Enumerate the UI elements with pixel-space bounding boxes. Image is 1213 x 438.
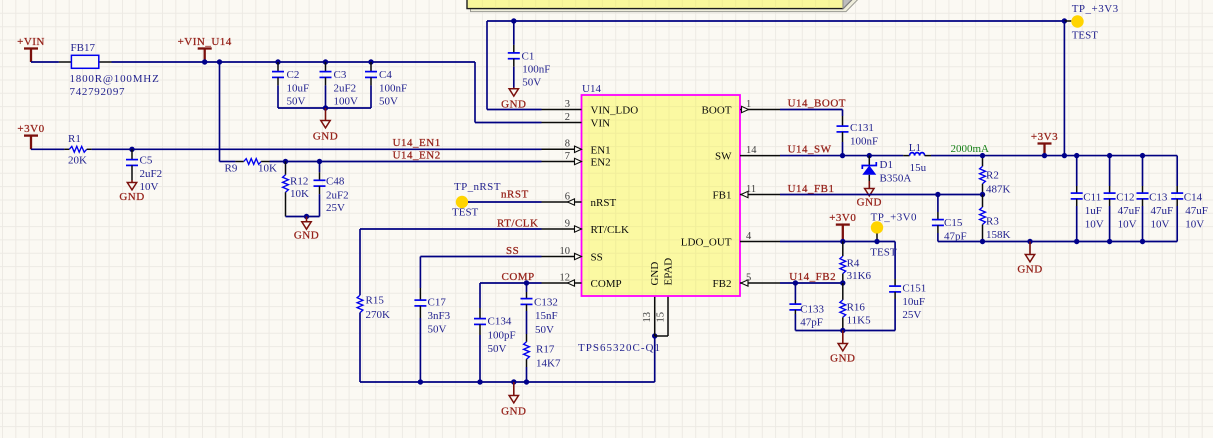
svg-text:C12: C12 xyxy=(1116,192,1134,204)
svg-text:100nF: 100nF xyxy=(379,83,407,95)
wire VIN rail xyxy=(112,61,476,63)
junction D1 xyxy=(867,153,872,158)
wire C151 bottom xyxy=(894,299,896,331)
svg-text:EN2: EN2 xyxy=(591,157,611,169)
pin 2 VIN stub xyxy=(542,122,582,124)
capacitor C14 xyxy=(1171,186,1183,206)
grid over note (decorative) xyxy=(469,0,842,8)
resistor R4 xyxy=(840,242,846,284)
svg-text:10V: 10V xyxy=(1151,219,1170,231)
svg-text:GND: GND xyxy=(501,99,526,111)
svg-text:1uF: 1uF xyxy=(1085,205,1102,217)
pin 5 FB2 stub xyxy=(740,280,780,286)
junction C134 bottom xyxy=(477,379,482,384)
pin 14 SW stub xyxy=(740,155,780,157)
wire +VIN to FB17 xyxy=(31,61,59,63)
svg-text:C151: C151 xyxy=(902,283,926,295)
power port +3V0 left xyxy=(17,123,44,149)
test point TP_+3V0 xyxy=(871,221,883,233)
svg-text:15: 15 xyxy=(655,312,666,323)
junction C1 xyxy=(511,18,516,23)
svg-text:U14_SW: U14_SW xyxy=(788,144,832,156)
svg-text:R4: R4 xyxy=(847,258,860,270)
capacitor C48 xyxy=(314,162,326,217)
svg-text:RT/CLK: RT/CLK xyxy=(497,218,538,230)
wire to pin VIN xyxy=(475,62,542,123)
svg-text:GND: GND xyxy=(649,262,661,286)
svg-text:nRST: nRST xyxy=(591,197,617,209)
svg-text:5: 5 xyxy=(746,272,751,283)
pin 1 BOOT stub xyxy=(740,106,780,112)
pin 13 stub xyxy=(654,296,656,336)
pin 3 VIN_LDO stub xyxy=(542,109,582,111)
junction C48 xyxy=(317,159,322,164)
capacitor C3 xyxy=(320,62,332,108)
wire C133 bottom xyxy=(794,314,796,331)
svg-text:R1: R1 xyxy=(68,133,81,145)
wire C14 corner xyxy=(1176,156,1178,242)
svg-text:C48: C48 xyxy=(326,176,345,188)
svg-text:14K7: 14K7 xyxy=(536,358,561,370)
svg-text:3nF3: 3nF3 xyxy=(428,310,451,322)
wire C2-C4 bottoms xyxy=(278,107,371,109)
wire VIN_LDO top rail xyxy=(487,20,1064,22)
resistor R12 xyxy=(283,162,289,217)
capacitor C132 xyxy=(521,292,533,311)
wire LDO_OUT xyxy=(780,242,895,280)
junction C11 top xyxy=(1074,153,1079,158)
pin 10 SS stub xyxy=(542,253,582,259)
svg-text:RT/CLK: RT/CLK xyxy=(591,224,630,236)
wire C13 top xyxy=(1142,156,1144,186)
svg-text:C17: C17 xyxy=(428,297,447,309)
svg-text:EN1: EN1 xyxy=(591,144,611,156)
svg-text:GND: GND xyxy=(501,405,526,417)
capacitor C1 xyxy=(508,21,520,88)
svg-text:+3V3: +3V3 xyxy=(1031,131,1058,143)
diode D1 B350A xyxy=(862,156,876,188)
junction +3V0 R4 xyxy=(840,239,845,244)
junction gnd output xyxy=(1027,239,1032,244)
svg-text:R9: R9 xyxy=(225,163,238,175)
wire BOOT xyxy=(780,110,843,117)
svg-text:GND: GND xyxy=(119,191,144,203)
junction C132 xyxy=(524,280,529,285)
svg-text:C3: C3 xyxy=(334,69,347,81)
svg-text:10V: 10V xyxy=(1118,219,1137,231)
svg-text:TEST: TEST xyxy=(870,247,897,259)
svg-text:SS: SS xyxy=(591,252,603,264)
svg-text:47pF: 47pF xyxy=(800,317,823,329)
svg-text:SS: SS xyxy=(506,245,519,257)
svg-text:C1: C1 xyxy=(522,51,535,63)
svg-text:47uF: 47uF xyxy=(1151,205,1174,217)
junction C12 bottom xyxy=(1107,239,1112,244)
resistor R16 xyxy=(840,283,846,331)
svg-text:COMP: COMP xyxy=(591,278,622,290)
svg-text:VIN: VIN xyxy=(591,118,611,130)
pin 7 EN2 stub xyxy=(542,158,582,164)
svg-text:742792097: 742792097 xyxy=(70,86,126,98)
junction C131 SW xyxy=(840,153,845,158)
test point TP_+3V3 xyxy=(1071,15,1083,27)
junction TP_+3V0 xyxy=(874,239,879,244)
pin 4 LDO_OUT stub xyxy=(740,241,780,243)
junction C12 top xyxy=(1107,153,1112,158)
svg-text:7: 7 xyxy=(565,151,570,162)
wire SW rail to output xyxy=(931,155,1177,157)
junction C13 top xyxy=(1140,153,1145,158)
ground C1 xyxy=(501,88,526,111)
svg-text:10K: 10K xyxy=(258,163,277,175)
wire SS xyxy=(420,257,541,289)
svg-text:270K: 270K xyxy=(366,309,391,321)
svg-text:C4: C4 xyxy=(379,69,392,81)
svg-text:L1: L1 xyxy=(909,142,921,154)
svg-text:50V: 50V xyxy=(535,324,554,336)
junction C11 bottom xyxy=(1074,239,1079,244)
wire +3V0 to R1 xyxy=(31,148,64,150)
junction FB1 R2 R3 xyxy=(980,192,985,197)
wire nRST xyxy=(468,201,542,203)
capacitor C133 xyxy=(789,300,801,314)
capacitor C12 xyxy=(1104,186,1116,206)
svg-text:C13: C13 xyxy=(1149,192,1168,204)
wire C11 bottom xyxy=(1076,206,1078,242)
svg-text:VIN_LDO: VIN_LDO xyxy=(591,105,639,117)
svg-text:10uF: 10uF xyxy=(287,83,310,95)
svg-text:SW: SW xyxy=(715,151,732,163)
svg-text:50V: 50V xyxy=(379,96,398,108)
svg-text:C5: C5 xyxy=(140,155,153,167)
wire TP_+3V0 stem xyxy=(876,234,878,242)
wire output gnd bus xyxy=(938,241,1177,243)
power port +VIN_U14 xyxy=(178,36,232,62)
svg-text:50V: 50V xyxy=(428,324,447,336)
svg-text:R17: R17 xyxy=(536,344,555,356)
svg-text:8: 8 xyxy=(565,139,570,150)
svg-text:U14_FB1: U14_FB1 xyxy=(788,183,835,195)
junction R17 bottom xyxy=(524,379,529,384)
capacitor C151 xyxy=(889,279,901,299)
svg-text:31K6: 31K6 xyxy=(847,270,872,282)
svg-text:U14_EN2: U14_EN2 xyxy=(393,150,441,162)
capacitor C134 xyxy=(474,308,486,335)
svg-text:11K5: 11K5 xyxy=(847,315,872,327)
svg-text:R12: R12 xyxy=(290,176,308,188)
svg-text:C15: C15 xyxy=(944,217,963,229)
capacitor C2 xyxy=(272,62,284,108)
svg-text:487K: 487K xyxy=(986,184,1011,196)
svg-text:3: 3 xyxy=(565,99,570,110)
svg-text:GND: GND xyxy=(294,230,319,242)
wire FB1 xyxy=(780,194,983,196)
svg-text:10V: 10V xyxy=(1185,219,1204,231)
power port +3V3 xyxy=(1031,131,1058,156)
wire TP_+3V3 stub xyxy=(1064,20,1071,22)
wire C13 bottom xyxy=(1142,206,1144,242)
svg-text:25V: 25V xyxy=(326,202,345,214)
svg-text:C133: C133 xyxy=(800,304,824,316)
resistor R1 xyxy=(64,146,91,152)
svg-text:2uF2: 2uF2 xyxy=(140,168,163,180)
svg-text:10V: 10V xyxy=(1085,219,1104,231)
svg-text:B350A: B350A xyxy=(880,173,912,185)
svg-text:15u: 15u xyxy=(910,162,927,174)
junction R2 SW xyxy=(980,153,985,158)
wire FB2 xyxy=(780,282,843,284)
svg-text:158K: 158K xyxy=(986,229,1011,241)
wire C132 branch xyxy=(526,283,528,292)
ground C5 xyxy=(119,180,144,203)
svg-text:TEST: TEST xyxy=(1072,30,1099,42)
junction C13 bottom xyxy=(1140,239,1145,244)
pin 8 EN1 stub xyxy=(542,146,582,152)
wire C12 bottom xyxy=(1109,206,1111,242)
junction C133 FB2 xyxy=(793,280,798,285)
svg-text:C11: C11 xyxy=(1083,192,1101,204)
wire bottom bus xyxy=(360,336,655,382)
wire C15 bottom xyxy=(937,233,939,242)
wire C133 top xyxy=(794,283,796,300)
svg-text:+VIN_U14: +VIN_U14 xyxy=(178,36,232,48)
svg-text:9: 9 xyxy=(565,218,570,229)
wire C132 to R17 xyxy=(526,311,528,334)
junction TP_+3V3 xyxy=(1062,18,1067,23)
wire EN1 net xyxy=(92,148,542,150)
svg-text:11: 11 xyxy=(746,184,756,195)
svg-text:TEST: TEST xyxy=(452,207,479,219)
junction R16 bottom xyxy=(840,328,845,333)
wire COMP xyxy=(480,282,542,284)
wire C134 branch xyxy=(479,283,481,308)
wire EN branch vertical xyxy=(219,62,221,162)
svg-text:50V: 50V xyxy=(287,96,306,108)
svg-text:50V: 50V xyxy=(522,77,541,89)
junction gnd bottom xyxy=(511,379,516,384)
wire pad 15 link xyxy=(655,296,668,336)
wire VIN_LDO down to pin xyxy=(487,21,542,110)
svg-text:100pF: 100pF xyxy=(488,330,516,342)
wire FB2 gnd bus xyxy=(795,330,895,332)
svg-text:EPAD: EPAD xyxy=(663,258,675,286)
svg-text:R2: R2 xyxy=(986,170,999,182)
svg-text:25V: 25V xyxy=(902,309,921,321)
ground D1 xyxy=(857,181,882,209)
wire EN2 net xyxy=(270,161,542,163)
junction R12 xyxy=(283,159,288,164)
svg-text:100V: 100V xyxy=(334,96,359,108)
wire C134 bottom xyxy=(479,335,481,382)
pin 12 COMP stub xyxy=(542,280,582,286)
wire R12 C48 bottoms xyxy=(286,216,320,218)
junction C2 xyxy=(275,59,280,64)
capacitor C4 xyxy=(365,62,377,108)
wire R15 bottom xyxy=(359,313,361,382)
svg-text:BOOT: BOOT xyxy=(702,105,732,117)
junction cap bank gnd xyxy=(323,105,328,110)
svg-text:C14: C14 xyxy=(1184,192,1203,204)
svg-text:FB2: FB2 xyxy=(713,278,732,290)
note box fold xyxy=(843,0,856,9)
svg-text:FB17: FB17 xyxy=(71,42,96,54)
wire R17 bottom xyxy=(526,367,528,382)
junction pads xyxy=(652,333,657,338)
svg-text:TPS65320C-Q1: TPS65320C-Q1 xyxy=(578,342,660,354)
op-amp U14 TPS65320C-Q1 body xyxy=(582,95,741,296)
svg-text:10uF: 10uF xyxy=(902,296,925,308)
svg-text:R15: R15 xyxy=(366,295,385,307)
junction +3V3 xyxy=(1042,153,1047,158)
junction R12C48 gnd xyxy=(304,214,309,219)
wire C12 top xyxy=(1109,156,1111,186)
svg-text:10K: 10K xyxy=(290,188,309,200)
svg-text:15nF: 15nF xyxy=(535,310,558,322)
wire C17 bottom xyxy=(419,318,421,382)
svg-text:14: 14 xyxy=(746,145,757,156)
wire C11 top xyxy=(1076,156,1078,186)
svg-text:+VIN: +VIN xyxy=(17,36,45,48)
svg-text:47uF: 47uF xyxy=(1185,205,1208,217)
svg-text:nRST: nRST xyxy=(501,189,529,201)
resistor R9 xyxy=(235,159,269,165)
svg-text:FB1: FB1 xyxy=(713,190,732,202)
ground R12 C48 xyxy=(294,217,319,242)
resistor R2 xyxy=(980,156,986,195)
svg-text:2uF2: 2uF2 xyxy=(334,83,357,95)
resistor R17 xyxy=(524,334,530,367)
svg-text:20K: 20K xyxy=(68,155,87,167)
svg-text:TP_+3V3: TP_+3V3 xyxy=(1072,3,1119,15)
svg-text:R3: R3 xyxy=(986,216,999,228)
svg-text:R16: R16 xyxy=(847,302,866,314)
junction R4 R16 FB2 xyxy=(840,280,845,285)
ground bottom xyxy=(501,382,526,417)
svg-text:COMP: COMP xyxy=(502,271,535,283)
svg-text:C132: C132 xyxy=(534,297,558,309)
svg-text:GND: GND xyxy=(830,353,855,365)
wire RT/CLK xyxy=(360,228,542,230)
svg-text:+3V0: +3V0 xyxy=(829,212,856,224)
junction C15 FB1 xyxy=(935,192,940,197)
note box shadow xyxy=(471,0,860,12)
svg-text:13: 13 xyxy=(642,312,653,323)
capacitor C11 xyxy=(1071,186,1083,206)
svg-text:D1: D1 xyxy=(880,159,893,171)
ground cap bank xyxy=(313,108,338,142)
svg-text:2uF2: 2uF2 xyxy=(326,190,349,202)
capacitor C5 xyxy=(126,149,138,180)
junction C3 xyxy=(323,59,328,64)
power port +3V0 right xyxy=(829,212,856,242)
junction C4 xyxy=(368,59,373,64)
junction VIN rail to EN branch xyxy=(217,59,222,64)
capacitor C17 xyxy=(414,288,426,318)
resistor R15 xyxy=(357,295,363,312)
svg-text:+3V0: +3V0 xyxy=(17,123,44,135)
svg-text:4: 4 xyxy=(746,231,752,242)
junction C17 bottom xyxy=(418,379,423,384)
capacitor C13 xyxy=(1137,186,1149,206)
wire SW xyxy=(780,155,903,157)
svg-text:C131: C131 xyxy=(850,122,874,134)
svg-text:LDO_OUT: LDO_OUT xyxy=(681,237,732,249)
svg-text:50V: 50V xyxy=(488,343,507,355)
power port +VIN xyxy=(17,36,45,62)
svg-text:12: 12 xyxy=(560,272,571,283)
inductor L1 xyxy=(903,153,931,156)
note box xyxy=(467,0,856,9)
svg-text:100nF: 100nF xyxy=(850,136,878,148)
svg-text:6: 6 xyxy=(565,191,570,202)
svg-text:C2: C2 xyxy=(287,69,300,81)
wire C131 to SW xyxy=(842,142,844,156)
test point TP_nRST xyxy=(456,196,468,208)
junction C5 xyxy=(129,147,134,152)
ground FB2 divider xyxy=(830,331,855,365)
pin 9 RT/CLK stub xyxy=(542,226,582,232)
svg-text:TP_nRST: TP_nRST xyxy=(454,181,501,193)
svg-text:C134: C134 xyxy=(488,316,512,328)
wire R15 top xyxy=(359,229,361,295)
junction at +VIN_U14 stem xyxy=(202,59,207,64)
svg-text:1800R@100MHZ: 1800R@100MHZ xyxy=(70,73,160,85)
svg-text:U14_BOOT: U14_BOOT xyxy=(788,98,846,110)
svg-text:U14: U14 xyxy=(582,83,601,95)
wire EN2 start xyxy=(220,161,236,163)
svg-text:GND: GND xyxy=(857,197,882,209)
capacitor C15 xyxy=(932,212,944,233)
svg-text:47uF: 47uF xyxy=(1118,205,1141,217)
svg-text:100nF: 100nF xyxy=(522,64,550,76)
wire +3V3 vertical xyxy=(1063,21,1065,156)
svg-text:GND: GND xyxy=(1017,264,1042,276)
svg-text:TP_+3V0: TP_+3V0 xyxy=(871,212,917,224)
svg-text:2: 2 xyxy=(565,112,570,123)
resistor R3 xyxy=(980,195,986,242)
svg-text:GND: GND xyxy=(313,130,338,142)
wire C15 top xyxy=(937,195,939,213)
ground output xyxy=(1017,242,1042,276)
svg-text:10: 10 xyxy=(560,246,571,257)
ferrite bead FB17 xyxy=(59,55,112,68)
svg-text:U14_EN1: U14_EN1 xyxy=(393,137,441,149)
capacitor C131 xyxy=(837,116,849,142)
junction TP3V3 rail xyxy=(1062,153,1067,158)
pin 6 nRST stub xyxy=(542,199,582,205)
svg-text:1: 1 xyxy=(746,99,751,110)
junction R3 bottom xyxy=(980,239,985,244)
pin 11 FB1 stub xyxy=(740,191,780,197)
